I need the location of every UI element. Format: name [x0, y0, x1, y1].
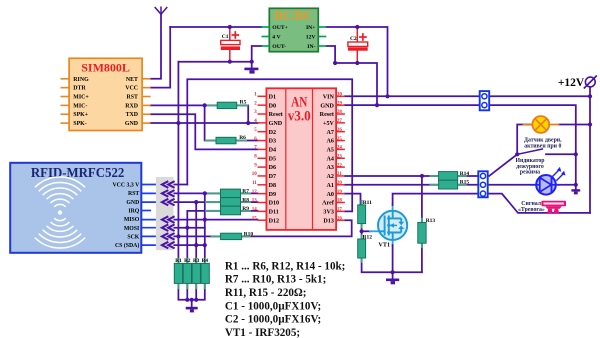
- wire: lamp left branch: [517, 125, 532, 155]
- svg-text:R1: R1: [175, 258, 182, 264]
- wire: R9 right to AN D11: [241, 210, 258, 212]
- svg-text:D9: D9: [269, 192, 276, 198]
- svg-text:R7 ... R10, R13 - 5k1;: R7 ... R10, R13 - 5k1;: [225, 274, 326, 286]
- wire: RFID GND row to R8: [141, 201, 156, 203]
- cable chevrons sck row: [162, 233, 175, 240]
- svg-text:D7: D7: [269, 174, 276, 180]
- wire: gate node to VT1 gate: [362, 230, 371, 232]
- wire: ground rail y62 / C1 bottom: [178, 61, 251, 63]
- junction node (187.3,227.7): [185, 226, 189, 230]
- svg-text:19: 19: [337, 190, 343, 195]
- capacitor C1: [221, 32, 240, 50]
- svg-text:A6: A6: [326, 139, 333, 145]
- svg-text:D0: D0: [269, 103, 276, 109]
- resistor R7: [206, 189, 250, 198]
- junction node (191.7,299.8): [190, 298, 194, 302]
- svg-text:MISO: MISO: [124, 217, 140, 223]
- AN pin stubs and numbers: [258, 96, 345, 220]
- resistor R8: [206, 197, 250, 206]
- svg-text:RING: RING: [73, 77, 89, 83]
- wire: R14 right to connector pin1: [458, 175, 479, 177]
- svg-text:D13: D13: [323, 218, 334, 224]
- svg-text:«Тревога»: «Тревога»: [518, 207, 545, 213]
- resistor R9: [206, 206, 250, 215]
- svg-text:D12: D12: [269, 218, 280, 224]
- wire: RFID CS row: [141, 244, 156, 246]
- wire: DC/DC OUT- down to ground: [252, 46, 262, 68]
- svg-text:D4: D4: [269, 148, 276, 154]
- wire: RXD node down to R6: [205, 105, 216, 140]
- svg-text:18: 18: [337, 199, 343, 204]
- cable chevrons miso row: [162, 216, 175, 223]
- wire: 3V3 to RFID VCC long rail: [187, 79, 352, 211]
- svg-text:RST: RST: [127, 95, 139, 101]
- svg-text:16: 16: [337, 216, 343, 221]
- junction node (204.8,245.1): [203, 243, 207, 247]
- junction node (248.2,123): [246, 121, 250, 125]
- svg-text:30: 30: [337, 93, 343, 98]
- svg-text:A5: A5: [326, 148, 333, 154]
- svg-text:A0: A0: [326, 192, 333, 198]
- junction node (361.6,231.3): [360, 229, 364, 233]
- svg-text:23: 23: [337, 154, 343, 159]
- svg-text:D11: D11: [269, 209, 279, 215]
- SIM800L pin stubs (orange): [61, 79, 151, 123]
- svg-text:GND: GND: [126, 200, 139, 206]
- svg-text:IN-: IN-: [307, 44, 315, 50]
- svg-text:NET: NET: [126, 77, 138, 83]
- svg-text:GND: GND: [269, 121, 283, 127]
- wire: C2 leads: [356, 27, 358, 42]
- svg-text:активен при 0: активен при 0: [524, 143, 561, 149]
- svg-text:29: 29: [337, 101, 343, 106]
- svg-text:+12V: +12V: [558, 77, 585, 89]
- RFID-MRFC522 module U4: [10, 163, 141, 253]
- wire: R6 right to AN D3: [236, 140, 258, 142]
- junction node (204.6,105.38): [203, 103, 207, 107]
- svg-text:22: 22: [337, 163, 343, 168]
- svg-text:R15: R15: [460, 180, 470, 186]
- cable chevrons mosi row: [162, 224, 175, 231]
- svg-text:VT1: VT1: [378, 242, 390, 249]
- svg-text:MIC-: MIC-: [73, 103, 87, 109]
- wire: A0 down to R11: [345, 194, 361, 205]
- svg-text:RFID-MRFC522: RFID-MRFC522: [31, 165, 125, 180]
- wire: connector pin1 diagonal to switch node: [489, 154, 517, 176]
- junction node (229.8,27): [228, 25, 232, 29]
- svg-text:R2: R2: [184, 258, 191, 264]
- svg-text:D2: D2: [269, 130, 276, 136]
- wire: connector pin2 to LED: [488, 184, 536, 186]
- wire: pulldown bus R4 (from R7 row): [204, 193, 206, 263]
- svg-text:SPK+: SPK+: [73, 112, 88, 118]
- screw terminal X2 (outputs, 3-pin): [478, 171, 487, 197]
- svg-text:20: 20: [337, 181, 343, 186]
- wire: R8 right to AN D10: [241, 201, 258, 203]
- DC/DC pin stubs (green): [262, 27, 327, 46]
- svg-text:28: 28: [337, 110, 343, 115]
- svg-text:R9: R9: [242, 206, 249, 212]
- wire: VT1 source down: [392, 239, 394, 246]
- wire: R1-R4 bottoms to common ground: [178, 283, 204, 299]
- svg-text:TXD: TXD: [126, 112, 138, 118]
- svg-text:Aref: Aref: [322, 201, 335, 207]
- svg-text:13: 13: [252, 199, 258, 204]
- right side labels: [515, 137, 562, 213]
- resistors R1 R2 R3 R4 (pulldown pack): [174, 258, 209, 288]
- junction node (196.2,202.1): [194, 200, 198, 204]
- junction node (251.7,61.7): [250, 60, 254, 64]
- resistor R6: [206, 135, 247, 144]
- wire: SIM VCC to DC/DC OUT+ rail: [151, 27, 171, 88]
- junction node (357.3,63): [355, 61, 359, 65]
- svg-text:24: 24: [337, 146, 343, 151]
- svg-text:Reset: Reset: [269, 112, 283, 118]
- svg-text:OUT-: OUT-: [272, 44, 286, 50]
- svg-text:OUT+: OUT+: [272, 25, 288, 31]
- LED HL2: [531, 167, 566, 195]
- svg-text:RXD: RXD: [125, 103, 138, 109]
- junction node (392.6,272.2): [391, 270, 395, 274]
- MOSFET VT1: [378, 211, 407, 249]
- junction node (517.2,154.3): [515, 152, 519, 156]
- junction node (422,175.95): [420, 174, 424, 178]
- ground at LED node: [571, 185, 580, 195]
- svg-text:режима: режима: [520, 170, 540, 176]
- wire: A2 row to R14: [345, 175, 439, 177]
- junction node (196.2,299.8): [194, 298, 198, 302]
- svg-text:A7: A7: [326, 130, 333, 136]
- wire: lamp right to +12V rail: [558, 124, 590, 126]
- resistor R12: [358, 234, 373, 261]
- svg-text:10: 10: [252, 172, 258, 177]
- svg-text:12: 12: [252, 190, 258, 195]
- svg-text:v3.0: v3.0: [288, 109, 311, 125]
- wire: SIM GND to AN GND row: [151, 122, 258, 124]
- wire: AN GND29 row to right, down to LED gnd node: [345, 105, 576, 185]
- wire: R13 top to A2 node: [421, 176, 423, 223]
- junction node (575.8,184.8): [574, 183, 578, 187]
- svg-text:11: 11: [252, 181, 257, 186]
- svg-text:SIM800L: SIM800L: [81, 61, 130, 75]
- svg-text:3V3: 3V3: [323, 209, 334, 215]
- svg-text:SCK: SCK: [127, 234, 139, 240]
- junction node (335.1,63): [333, 61, 337, 65]
- svg-text:17: 17: [337, 208, 343, 213]
- wire: RFID MOSI row: [141, 227, 156, 229]
- svg-text:D8: D8: [269, 183, 276, 189]
- svg-text:R6: R6: [239, 135, 246, 141]
- wire: connector pin3 to buzzer bottom rail: [488, 194, 590, 213]
- svg-text:25: 25: [337, 137, 343, 142]
- svg-text:R14: R14: [460, 171, 470, 177]
- svg-text:R11, R15 - 220Ω;: R11, R15 - 220Ω;: [225, 287, 307, 299]
- resistor R10: [212, 231, 254, 239]
- wire: SIM TXD to AN D4: [151, 114, 258, 149]
- svg-text:R3: R3: [193, 258, 200, 264]
- svg-text:A1: A1: [326, 183, 333, 189]
- svg-text:VT1 - IRF3205;: VT1 - IRF3205;: [225, 327, 300, 338]
- wire: R15 right to connector pin2: [458, 184, 479, 186]
- svg-text:VCC 3,3 V: VCC 3,3 V: [113, 183, 141, 189]
- svg-text:D10: D10: [269, 201, 280, 207]
- wire: switch right contact to gnd vertical: [546, 153, 576, 155]
- RFID antenna coil arcs: [35, 177, 85, 248]
- svg-text:15: 15: [252, 216, 258, 221]
- resistor R5: [206, 100, 248, 109]
- wire: R5 right to GND row: [237, 105, 249, 123]
- svg-text:VIN: VIN: [323, 94, 335, 100]
- wire: R7 right to AN D9: [241, 192, 258, 194]
- junction node (590,124.5): [588, 122, 592, 126]
- svg-text:MOSI: MOSI: [124, 226, 140, 232]
- wire: AN VIN row to +12V rail: [345, 95, 590, 97]
- svg-text:D3: D3: [269, 139, 276, 145]
- svg-text:GND: GND: [125, 121, 138, 127]
- cable chevrons vcc row: [162, 181, 175, 188]
- svg-text:R10: R10: [244, 231, 254, 237]
- svg-text:R8: R8: [242, 197, 249, 203]
- DC/DC converter block U2: [269, 8, 318, 52]
- cable chevrons gnd row: [162, 199, 175, 206]
- RFID IRQ stub (unconnected): [141, 210, 150, 212]
- svg-text:R4: R4: [202, 258, 209, 264]
- svg-text:SPK-: SPK-: [73, 121, 86, 127]
- svg-text:RST: RST: [128, 191, 139, 197]
- svg-text:27: 27: [337, 119, 343, 124]
- resistor R15: [430, 180, 469, 189]
- junction node (575.8,154.3): [574, 152, 578, 156]
- wire: RFID MISO row direct to AN D12: [141, 219, 156, 221]
- junction node (387.5,96.3): [385, 94, 389, 98]
- junction node (178.4,236.4): [176, 234, 180, 238]
- wire: SIM RXD row: [151, 104, 218, 106]
- svg-text:A2: A2: [326, 174, 333, 180]
- svg-text:DTR: DTR: [73, 86, 86, 92]
- svg-text:R13: R13: [426, 218, 436, 224]
- svg-text:12V: 12V: [306, 35, 317, 41]
- switch blade (door sensor): [517, 149, 542, 154]
- wire: R9 feed from MOSI node: [187, 211, 220, 228]
- wire: R13 bottom to source rail: [421, 243, 423, 272]
- svg-text:14: 14: [252, 208, 258, 213]
- svg-text:R5: R5: [240, 100, 247, 106]
- wire: pulldown bus R3 (from R8 row): [195, 202, 197, 263]
- resistor R11: [358, 200, 372, 227]
- svg-text:R1 ... R6, R12, R14 - 10k;: R1 ... R6, R12, R14 - 10k;: [225, 260, 346, 272]
- svg-text:R7: R7: [242, 189, 249, 195]
- junction node (204.8,219.6): [203, 218, 207, 222]
- svg-text:IRQ: IRQ: [128, 208, 139, 214]
- svg-text:IN+: IN+: [306, 25, 316, 31]
- wire: SIM NET to antenna: [151, 14, 161, 79]
- wire: RFID VCC row: [141, 184, 156, 186]
- capacitor C2: [348, 34, 368, 51]
- wire: LED cathode to gnd node: [556, 184, 576, 186]
- wire: C1 leads: [229, 27, 231, 40]
- svg-text:Reset: Reset: [320, 112, 334, 118]
- svg-text:C2 - 1000,0µFХ16V;: C2 - 1000,0µFХ16V;: [225, 314, 321, 326]
- Arduino Nano block U1 (AN v3.0): [266, 88, 336, 230]
- ground near DC/DC: [244, 68, 258, 74]
- svg-text:4 V: 4 V: [272, 35, 281, 41]
- junction node (178.4,123): [176, 121, 180, 125]
- +12V power terminal: [558, 76, 597, 90]
- cable chevrons cs row: [162, 242, 175, 249]
- wire: VT1 drain up to pin3 row: [392, 204, 394, 212]
- svg-text:R11: R11: [363, 200, 372, 206]
- screw terminal X1 (power, 2-pin): [480, 91, 490, 110]
- svg-text:VCC: VCC: [125, 86, 138, 92]
- wire: R12 bottom to ground rail: [362, 258, 422, 272]
- svg-text:A3: A3: [326, 165, 333, 171]
- wire: D13 to R10 right (under AN): [242, 220, 352, 236]
- svg-text:CS (SDA): CS (SDA): [115, 242, 139, 249]
- resistor R14: [430, 171, 469, 180]
- wire: vertical bus x178 (SIM GND / SCK pulldown): [177, 62, 179, 264]
- svg-text:C2: C2: [350, 36, 357, 42]
- svg-text:D1: D1: [269, 94, 276, 100]
- antenna: [155, 7, 167, 14]
- SIM800L module U3: [69, 58, 142, 130]
- svg-text:C1: C1: [222, 34, 229, 40]
- svg-text:R12: R12: [363, 234, 373, 240]
- junction node (590,96.3): [588, 94, 592, 98]
- buzzer BA1 (alarm): [541, 201, 566, 214]
- svg-text:21: 21: [337, 172, 343, 177]
- wire: RFID SCK row to R10: [141, 235, 156, 237]
- wire: +12V vertical rail: [589, 87, 591, 213]
- lamp HL1 (door sensor indicator): [532, 116, 549, 133]
- junction node (357.3,27): [355, 25, 359, 29]
- wire: DC/DC IN- to AN GND29: [326, 46, 377, 105]
- junction node (187.3,299.8): [185, 298, 189, 302]
- svg-text:GND: GND: [320, 103, 334, 109]
- ground at VT1 source: [386, 272, 399, 284]
- svg-text:A4: A4: [326, 156, 333, 162]
- BOM text block: [225, 260, 346, 338]
- wire: OUT+ rail with C1 top: [170, 26, 261, 28]
- wire: DC/DC IN+ to AN VIN: [326, 27, 387, 96]
- svg-text:MIC+: MIC+: [73, 95, 89, 101]
- svg-text:+5V: +5V: [323, 121, 335, 127]
- cable chevrons rst row: [162, 190, 175, 197]
- junction node (204.8,193.4): [203, 191, 207, 195]
- cable area (gray): [156, 177, 174, 250]
- wire: A1 row to R15: [345, 184, 439, 186]
- ground under R1-R4: [186, 307, 198, 313]
- svg-text:DC/DC: DC/DC: [274, 8, 313, 23]
- lamp terminal stubs (orange): [523, 124, 532, 126]
- svg-text:D5: D5: [269, 156, 276, 162]
- svg-text:C1 - 1000,0µFХ10V;: C1 - 1000,0µFХ10V;: [225, 300, 321, 312]
- svg-text:D6: D6: [269, 165, 276, 171]
- junction node (229.8,61.7): [228, 60, 232, 64]
- wire: RFID RST row to R7: [141, 192, 156, 194]
- wire: R11 bottom to R12 top (gate node): [361, 224, 363, 239]
- junction node (196.2,245.1): [194, 243, 198, 247]
- resistor R13: [418, 218, 436, 247]
- svg-text:26: 26: [337, 128, 343, 133]
- junction node (377,105.15): [375, 103, 379, 107]
- wire: pulldown bus R2 (MOSI): [186, 228, 188, 264]
